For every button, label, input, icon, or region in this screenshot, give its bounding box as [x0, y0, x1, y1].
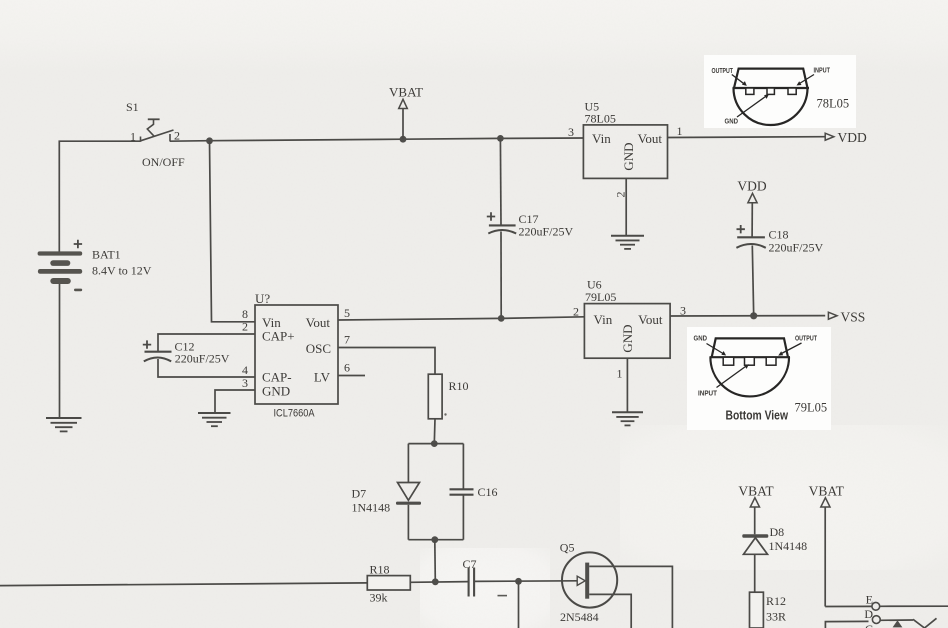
wire: pin D right segment: [880, 619, 913, 621]
svg-text:VBAT: VBAT: [738, 484, 774, 499]
svg-text:E: E: [866, 593, 873, 607]
wire: Q5 source down: [589, 594, 631, 628]
svg-text:Vout: Vout: [638, 131, 663, 146]
battery BAT1: [38, 240, 152, 418]
pin 6 label: [344, 361, 350, 375]
svg-text:78L05: 78L05: [585, 112, 616, 126]
switch contact (bottom edge, partial): [913, 618, 937, 628]
svg-text:Q5: Q5: [560, 541, 575, 555]
wire: C12 to U? pin4: [158, 359, 255, 377]
capacitor C12: [143, 340, 230, 366]
package drawing 78L05 top view: [704, 55, 856, 128]
svg-text:R10: R10: [449, 379, 469, 393]
svg-text:4: 4: [242, 363, 248, 377]
svg-text:INPUT: INPUT: [814, 68, 831, 75]
diode D7: [352, 483, 422, 515]
wire: junction to U? pin 8: [210, 141, 256, 322]
package drawing 79L05 bottom view: [687, 327, 831, 430]
svg-text:R12: R12: [766, 594, 786, 608]
svg-text:S1: S1: [126, 100, 139, 114]
power flag VBAT (top): [389, 85, 423, 140]
pin 7 label: [344, 333, 350, 347]
wire: U? pin3 to ground: [215, 390, 255, 413]
wire: R10 to D7/C16 top: [433, 419, 436, 444]
power flag VBAT (right): [809, 484, 845, 607]
wire: U5 pin2 to ground: [625, 178, 627, 235]
svg-text:220uF/25V: 220uF/25V: [769, 240, 824, 254]
svg-text:1: 1: [617, 367, 623, 381]
wire: U? pin5 to U6 Vin: [338, 317, 584, 320]
svg-text:CAP-: CAP-: [262, 370, 292, 385]
svg-text:GND: GND: [262, 384, 290, 399]
pin 4 label: [242, 363, 248, 377]
svg-text:VDD: VDD: [838, 130, 867, 145]
wire: C16 to bottom bar: [462, 495, 464, 540]
junction: D7/C16 top: [431, 440, 438, 447]
svg-text:33R: 33R: [766, 610, 786, 624]
svg-text:1: 1: [130, 130, 136, 144]
IC U? ICL7660A: [255, 291, 338, 420]
wire: node down to edge: [518, 581, 520, 628]
ground (U6 pin1): [612, 412, 643, 425]
resistor R10: [428, 374, 468, 419]
wire: C7 to Q5 gate: [474, 580, 577, 583]
wire: left edge to R18: [0, 583, 367, 586]
svg-text:VSS: VSS: [841, 310, 866, 325]
ground (battery): [46, 418, 82, 431]
svg-text:D: D: [864, 607, 873, 621]
junction: C17/U6 Vin: [498, 315, 505, 322]
power flag VDD (U5 output): [825, 130, 867, 145]
pin 3 label (U5): [568, 125, 574, 139]
capacitor C17: [487, 212, 574, 239]
regulator U6 79L05: [584, 278, 670, 359]
resistor R12: [750, 592, 787, 628]
svg-text:Vin: Vin: [594, 312, 613, 327]
svg-text:C18: C18: [769, 227, 789, 241]
ground (U5 pin2): [611, 236, 644, 249]
svg-text:220uF/25V: 220uF/25V: [175, 352, 230, 366]
svg-text:Vout: Vout: [306, 315, 331, 330]
connector pin C (partial): [865, 622, 873, 628]
ground (U? pin3): [198, 413, 231, 426]
wire: D7/C16 top bar: [408, 443, 463, 445]
junction: D7/C16 bottom: [431, 536, 438, 543]
arrow on pin D wire: [893, 620, 903, 627]
wire: S1 pin2 to U5 Vin (top rail): [170, 138, 583, 141]
wire: top rail to C17: [499, 138, 502, 225]
wire: U6 pin1 to ground: [626, 358, 628, 412]
power flag VSS: [828, 310, 865, 325]
svg-text:79L05: 79L05: [795, 401, 828, 415]
svg-text:OUTPUT: OUTPUT: [712, 68, 734, 75]
svg-text:INPUT: INPUT: [698, 391, 718, 398]
svg-text:CAP+: CAP+: [262, 329, 295, 344]
svg-text:Vin: Vin: [592, 131, 611, 146]
wire: pin D left segment: [825, 621, 868, 628]
wire: Q5 drain to right edge: [589, 566, 672, 628]
svg-text:2N5484: 2N5484: [560, 610, 599, 624]
pin 3 label (U6): [680, 304, 686, 318]
capacitor C7: [463, 557, 508, 597]
wire: top bar to C16: [462, 444, 464, 489]
svg-text:LV: LV: [314, 370, 331, 385]
svg-text:7: 7: [344, 333, 350, 347]
svg-text:GND: GND: [725, 119, 739, 126]
svg-text:Bottom View: Bottom View: [726, 408, 789, 423]
svg-text:OUTPUT: OUTPUT: [795, 336, 818, 343]
wire: U6 Vout to VSS: [670, 315, 825, 317]
pin 2 label (U5): [614, 192, 628, 198]
svg-text:ICL7660A: ICL7660A: [274, 408, 316, 420]
regulator U5 78L05: [583, 100, 667, 179]
wire: U? pin2 to C12: [158, 334, 255, 352]
pin 2 label: [242, 320, 248, 334]
svg-text:R18: R18: [370, 563, 390, 577]
junction: S1/U? pin8: [206, 137, 213, 144]
svg-text:ON/OFF: ON/OFF: [142, 155, 185, 169]
svg-text:GND: GND: [621, 142, 636, 170]
wire: top bar to D7 anode: [407, 444, 409, 483]
switch S1: [126, 100, 185, 169]
wire: D8 anode to R12: [754, 554, 756, 592]
capacitor C18: [736, 225, 823, 254]
svg-text:U?: U?: [255, 291, 270, 306]
svg-text:VDD: VDD: [737, 179, 766, 194]
wire: U? pin7 (OSC) to R10: [338, 348, 435, 375]
svg-text:GND: GND: [694, 336, 708, 343]
svg-text:1N4148: 1N4148: [352, 501, 391, 515]
wire: R18 to C7: [410, 581, 468, 584]
svg-text:8.4V to 12V: 8.4V to 12V: [92, 264, 152, 278]
wire: C17 to U6 rail: [500, 232, 502, 319]
svg-text:D8: D8: [770, 525, 785, 539]
pin 5 label: [344, 306, 350, 320]
svg-text:5: 5: [344, 306, 350, 320]
junction: C18/VSS rail: [750, 312, 757, 319]
svg-text:1N4148: 1N4148: [769, 539, 808, 553]
svg-text:79L05: 79L05: [585, 290, 616, 304]
power flag VDD (C18): [737, 179, 766, 237]
pin 8 label: [242, 307, 248, 321]
connector pin E: [866, 593, 880, 611]
transistor Q5: [560, 541, 617, 625]
power flag VBAT (D8): [738, 484, 774, 535]
capacitor C16: [450, 485, 498, 499]
svg-text:C7: C7: [463, 557, 477, 571]
wire: D7/C16 bottom bar: [408, 539, 463, 541]
svg-text:3: 3: [568, 125, 574, 139]
wire: VBAT to pin E: [825, 605, 872, 607]
svg-text:78L05: 78L05: [817, 97, 850, 111]
svg-text:OSC: OSC: [306, 341, 331, 356]
junction: C17 top: [497, 135, 504, 142]
svg-text:D7: D7: [352, 487, 367, 501]
svg-text:3: 3: [242, 376, 248, 390]
svg-text:GND: GND: [620, 324, 635, 352]
wire: bottom bar to main rail: [434, 540, 437, 582]
wire: battery top to S1 pin1: [59, 141, 140, 251]
svg-text:1: 1: [677, 124, 683, 138]
pin 1 label (U6): [617, 367, 623, 381]
connector pin D: [864, 607, 880, 624]
svg-text:39k: 39k: [370, 591, 388, 605]
svg-text:VBAT: VBAT: [809, 484, 845, 499]
svg-text:VBAT: VBAT: [389, 85, 423, 100]
wire: C18 to VSS rail: [752, 246, 753, 316]
svg-text:2: 2: [573, 305, 579, 319]
junction: VBAT flag: [400, 136, 407, 143]
svg-text:BAT1: BAT1: [92, 248, 121, 262]
svg-text:220uF/25V: 220uF/25V: [519, 224, 574, 238]
svg-text:6: 6: [344, 361, 350, 375]
svg-text:2: 2: [242, 320, 248, 334]
pin 2 label (U6): [573, 305, 579, 319]
svg-text:C16: C16: [478, 485, 498, 499]
diode D8: [742, 525, 807, 555]
resistor R18: [367, 563, 410, 605]
junction: R18/C7 node: [432, 578, 439, 585]
pin 3 label: [242, 376, 248, 390]
wire: pin E to right edge: [880, 605, 948, 607]
wire: U? pin6 stub: [338, 375, 365, 377]
pin 1 label (U5): [677, 124, 683, 138]
svg-text:C: C: [865, 622, 873, 628]
wire: D7 cathode to bottom bar: [407, 505, 409, 540]
junction: C7/Q5 node: [515, 578, 522, 585]
wire: U5 Vout to VDD: [668, 136, 826, 139]
svg-text:Vout: Vout: [638, 312, 663, 327]
